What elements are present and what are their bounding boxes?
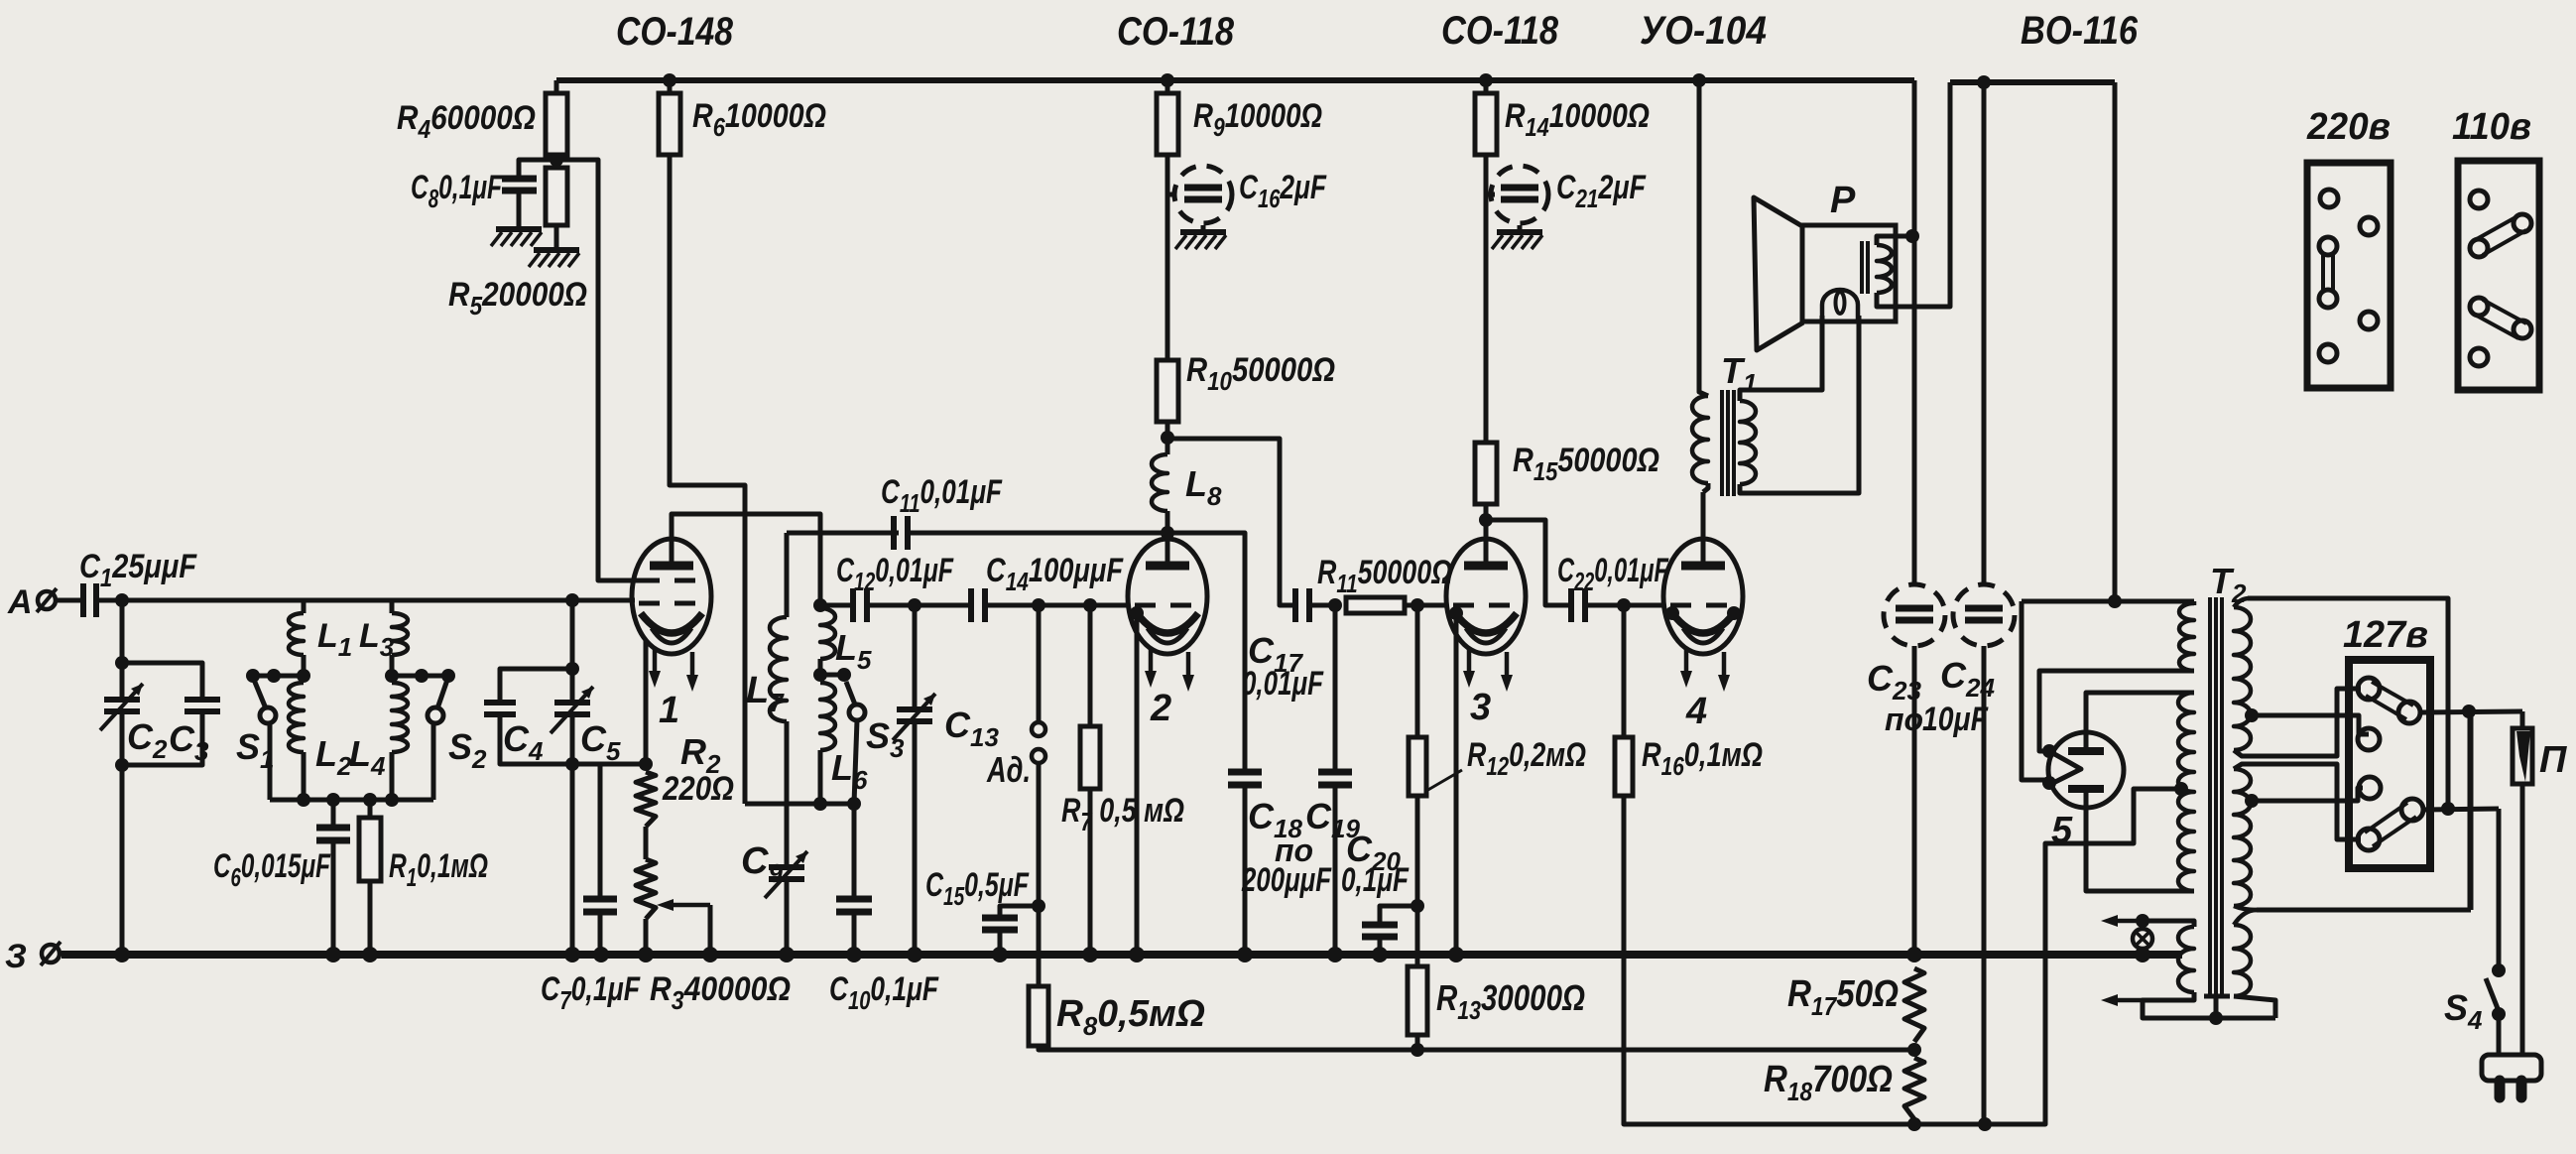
node L1-L2 junction with S1 stub [253, 674, 304, 679]
110V link bars [2475, 216, 2517, 240]
resistor R1 [368, 800, 373, 818]
svg-text:R1750Ω: R1750Ω [1787, 973, 1899, 1021]
node C13 tap [908, 598, 921, 612]
switch S4 [2492, 963, 2506, 977]
capacitor C11 [891, 516, 897, 550]
capacitor C20 [1380, 906, 1417, 922]
voltage selector box 127V [2349, 660, 2430, 868]
ground below C16 [1180, 229, 1226, 235]
wire bus to T1 primary [1699, 80, 1708, 396]
wire plate2 to HV bottom [2086, 793, 2194, 891]
wire 110V bottom joining heater line [2234, 906, 2257, 910]
svg-text:220в: 220в [2306, 106, 2391, 148]
resistor R4 [546, 93, 567, 155]
svg-text:R80,5мΩ: R80,5мΩ [1056, 993, 1205, 1041]
pointer line R12 label [1426, 770, 1462, 791]
wire oscillator grid line [745, 802, 854, 807]
switch S1 [246, 669, 260, 683]
capacitor C10 [852, 804, 857, 896]
svg-text:УO-104: УO-104 [1640, 9, 1767, 53]
wire lower link to switch S4 [2423, 809, 2499, 810]
capacitor C1 [58, 598, 81, 603]
svg-text:2: 2 [1150, 688, 1171, 729]
loudspeaker P box [1802, 225, 1896, 321]
svg-text:10μF: 10μF [1922, 701, 1989, 738]
T2 core [2208, 597, 2212, 994]
coil L5 [820, 608, 835, 659]
voice coil [1822, 290, 1858, 323]
resistor R15 [1475, 443, 1497, 504]
wire R16 to bias rail [1624, 789, 2180, 1124]
coil L8 [1165, 438, 1170, 454]
field coil winding [1877, 245, 1892, 293]
node L3-L4 junction with S2 stub [392, 674, 443, 679]
svg-text:3: 3 [1470, 687, 1491, 728]
capacitor C19 [1333, 605, 1338, 769]
svg-text:P: P [1830, 180, 1856, 221]
capacitor C5 variable [554, 700, 590, 705]
svg-text:по: по [1885, 702, 1923, 737]
bottom chassis bus wire [61, 951, 2182, 959]
T2 HV winding [2178, 693, 2194, 891]
wire tube1 plate to oscillator coil L5 [672, 514, 820, 605]
resistor R3 potentiometer [636, 859, 656, 919]
node C17-R11-C19 [1328, 598, 1342, 612]
wire plate1 to HV top [2086, 693, 2194, 747]
transformer T1 primary [1692, 396, 1708, 483]
svg-text:5: 5 [2051, 810, 2073, 851]
node R7 tap [1083, 598, 1097, 612]
switch S2 [441, 669, 455, 683]
tube2 cathode lead [1130, 606, 1144, 620]
terminal A [38, 591, 56, 609]
svg-text:R18700Ω: R18700Ω [1764, 1059, 1893, 1106]
resistor R2 [636, 772, 656, 827]
T2 rectifier filament winding [2179, 603, 2194, 671]
wire coil common rail [270, 798, 433, 803]
wire filament line down to rectifier cathode [2022, 601, 2049, 780]
svg-text:З: З [5, 938, 27, 975]
node R12 bottom [1411, 899, 1424, 913]
wire grid-2 line to tuned circuit [572, 598, 635, 603]
capacitor C23 electrolytic [1884, 584, 1945, 646]
capacitor C9 variable [785, 804, 790, 864]
T2 tap 1 [2245, 708, 2259, 722]
svg-text:CO-118: CO-118 [1441, 9, 1559, 53]
wire tube1 grid1 lead [598, 578, 641, 583]
wiper arrow of R3 [667, 903, 710, 908]
AF tube 3 [1446, 539, 1526, 654]
svg-text:П: П [2539, 739, 2567, 781]
svg-text:0,1μF: 0,1μF [1341, 861, 1410, 899]
svg-text:220Ω: 220Ω [662, 770, 734, 808]
selector pin mid1 [2358, 728, 2380, 750]
220V link plate [2307, 163, 2391, 388]
svg-text:CO-118: CO-118 [1117, 10, 1235, 54]
ground below C8 [496, 226, 542, 232]
triode-heptode tube 1 [632, 539, 711, 654]
wire junction to C8 [519, 160, 556, 176]
resistor R18 [1904, 1058, 1924, 1119]
wire C5 column [570, 600, 575, 700]
resistor R6 [668, 80, 673, 93]
capacitor C21 electrolytic [1486, 192, 1495, 197]
wire R9 to R10 [1165, 155, 1170, 360]
coil L2 [289, 683, 304, 752]
tube3 cathode lead [1449, 606, 1463, 620]
capacitor C16 electrolytic [1167, 192, 1176, 197]
resistor R13 [1415, 906, 1420, 966]
110V link plate [2458, 161, 2539, 390]
resistor R12 [1415, 605, 1420, 737]
IF tube 2 [1128, 539, 1207, 654]
coil L7 [785, 533, 790, 617]
wire cathode node [572, 762, 646, 767]
mains plug [2482, 1055, 2541, 1081]
T2 primary winding [2178, 927, 2194, 992]
field coil core [1860, 241, 1864, 294]
capacitor C4 branch [500, 669, 572, 703]
node tube3 plate [1484, 504, 1489, 520]
switch S3 [837, 668, 851, 682]
ground below R5 [534, 247, 579, 253]
node tube4 grid [1617, 598, 1631, 612]
ground below C21 [1497, 229, 1542, 235]
wire B+ bus end down to C23 [1912, 80, 1917, 584]
resistor R8 [1037, 906, 1042, 986]
node gramophone tap [1032, 598, 1045, 612]
transformer T1 secondary [1740, 401, 1756, 484]
capacitor C12 [850, 588, 856, 622]
wire antenna line to tube 1 grid [122, 598, 572, 603]
selector link upper [2358, 678, 2380, 700]
resistor R11 [1346, 597, 1405, 613]
capacitor C8 [502, 176, 537, 183]
svg-text:Ад.: Ад. [986, 749, 1031, 790]
svg-text:CO-148: CO-148 [616, 10, 734, 54]
node R4-R5 junction [550, 153, 563, 167]
node C15 junction [1032, 899, 1045, 913]
capacitor C14 [968, 588, 974, 622]
wire 220V top to fuse line [2248, 598, 2448, 809]
resistor R17 [1904, 968, 1924, 1042]
capacitor C13 variable [913, 605, 918, 706]
heater supply arrow bottom [2111, 998, 2143, 1003]
wire upper link to fuse [2420, 711, 2522, 712]
transformer T1 core [1720, 390, 1724, 496]
wire filament top tip to winding [2039, 671, 2194, 751]
wire L7 top to C11 [787, 531, 899, 536]
capacitor C7 [598, 764, 603, 896]
top B+ bus wire [556, 77, 1914, 83]
capacitor C24 electrolytic [1953, 584, 2015, 646]
gramophone jack Ad [1037, 605, 1042, 722]
wire bias rail R8-R13-R17 [1417, 1048, 1914, 1053]
resistor R16 [1622, 605, 1627, 737]
T2 tap 2 [2245, 794, 2259, 808]
wire minus rail [1914, 1122, 2045, 1127]
T2 secondary 110V winding [2234, 769, 2251, 906]
selector link lower [2358, 829, 2380, 850]
wire T1 secondary bottom to voice coil right [1740, 316, 1859, 493]
output tube 4 [1663, 539, 1743, 654]
svg-text:200μμF: 200μμF [1241, 861, 1332, 899]
resistor R7 [1088, 605, 1093, 726]
T2 HV centre tap [2174, 782, 2188, 796]
svg-text:127в: 127в [2343, 614, 2428, 656]
coil L6 [820, 683, 835, 750]
wire rectified B+ bus [1950, 79, 2115, 85]
wire heater line to mains [2257, 908, 2471, 913]
svg-text:0,01μF: 0,01μF [1242, 665, 1324, 703]
T2 secondary 220V winding [2234, 598, 2250, 607]
node R11-R12 grid node [1411, 598, 1424, 612]
capacitor C15 [1000, 906, 1039, 915]
resistor R5 [546, 168, 567, 225]
resistor R14 [1484, 80, 1489, 93]
terminal Z (chassis) [42, 945, 60, 962]
wire C2 branch [120, 600, 125, 697]
capacitor C18 [1228, 769, 1262, 776]
capacitor C22 [1568, 588, 1574, 622]
wire AGC feed from R4/R5 node down to tube 1 grid [556, 160, 635, 580]
heater supply arrow top [2136, 914, 2149, 928]
rectifier tube 5 [2048, 732, 2124, 808]
node L5 top [813, 598, 827, 612]
coil L3 [390, 600, 395, 613]
tube1 cathode lead to R2 [644, 640, 649, 764]
svg-text:BO-116: BO-116 [2021, 9, 2139, 53]
wire plate to C22 [1486, 520, 1571, 605]
capacitor C2 variable [104, 697, 140, 703]
wire T2 top filament line [2022, 599, 2194, 604]
fuse P [2520, 711, 2525, 728]
node L5-L6 junction [813, 668, 827, 682]
wire rectifier output to T2 [2113, 82, 2118, 601]
svg-text:A: A [7, 583, 33, 621]
wire 110V top to switch box [2234, 764, 2361, 839]
selector pin mid2 [2359, 777, 2381, 799]
wire to tube3 grid [1417, 603, 1447, 608]
node R10 bottom [1165, 422, 1170, 438]
wire R14 to R15 [1484, 155, 1489, 443]
wire R6 to oscillator grid line [670, 155, 745, 804]
svg-text:110в: 110в [2452, 106, 2531, 148]
wire plate node to C18 [1167, 533, 1245, 769]
wire field coil bottom to rectifier bus [1877, 82, 1950, 307]
wire R10 to C17 [1167, 439, 1295, 605]
coil L1 [302, 600, 307, 613]
wire tube4 plate to T1 [1701, 492, 1706, 566]
T2 heater winding [2234, 925, 2251, 996]
220V link bar [2321, 254, 2325, 291]
capacitor C6 [331, 800, 336, 825]
wire bus to R4 [554, 80, 559, 93]
wire field coil top to B+ line [1877, 236, 1912, 245]
svg-text:1: 1 [659, 690, 679, 731]
coil L4 [392, 683, 408, 752]
capacitor C3 branch [122, 663, 202, 700]
rectifier filament V [2049, 751, 2081, 785]
wire C24 to minus rail [1982, 646, 1987, 1124]
capacitor C17 [1292, 588, 1298, 622]
loudspeaker P horn [1754, 197, 1803, 350]
node tube2 plate [1161, 526, 1174, 540]
wire 220V bottom to switch box [2234, 689, 2361, 756]
dial lamp [2133, 929, 2152, 949]
resistor R10 [1157, 360, 1178, 422]
svg-text:4: 4 [1685, 691, 1707, 732]
wire coupling line C12/C14 [820, 603, 853, 608]
resistor R9 [1165, 80, 1170, 93]
wire T1 secondary top to voice coil [1740, 316, 1822, 401]
